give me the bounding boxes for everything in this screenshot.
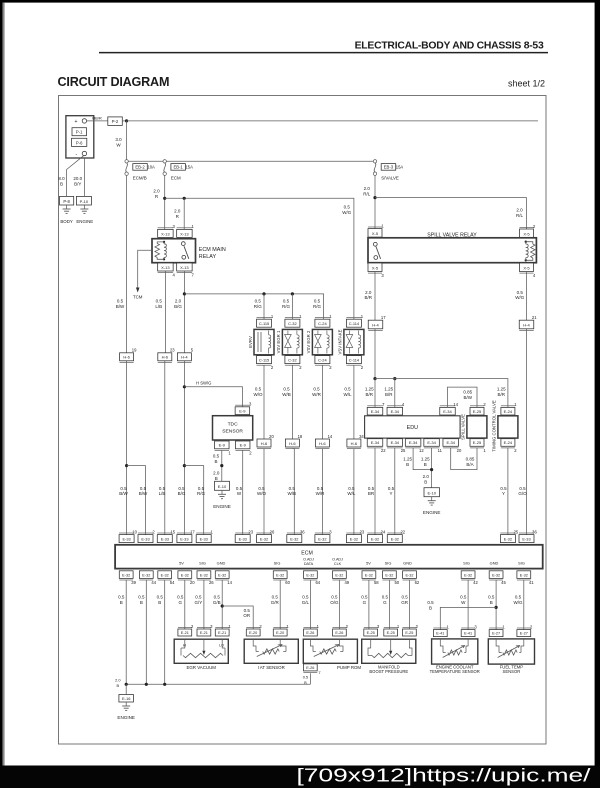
wire EDU pin25 to ECM pin22 [394, 448, 396, 535]
battery box [66, 116, 94, 158]
wire label 0.5 O/G [330, 594, 339, 604]
svg-text:E-34: E-34 [391, 409, 400, 414]
coolant sensor thermistor [440, 639, 468, 658]
svg-text:-: - [75, 152, 77, 158]
svg-text:0.5: 0.5 [118, 594, 125, 599]
connector H-6 pin 34 [347, 434, 364, 449]
svg-text:I AT SENSOR: I AT SENSOR [258, 665, 285, 670]
connector E-26 pin 7 pump rom ground [303, 664, 321, 675]
svg-text:W/L: W/L [347, 491, 355, 496]
connector E-32 ECM top pin 25 [500, 529, 518, 542]
svg-text:E-32: E-32 [276, 573, 284, 577]
svg-text:E-26: E-26 [306, 631, 314, 635]
wire label 0.5 R/G egr1 [282, 298, 291, 308]
EVRV internal symbol [258, 331, 271, 354]
connector E-34 pin 20 bottom [443, 439, 462, 453]
VSV EGR 2 internal symbol [315, 331, 330, 354]
svg-text:X-5: X-5 [372, 231, 379, 236]
svg-text:C-115: C-115 [259, 358, 269, 363]
svg-text:0.5: 0.5 [303, 674, 308, 679]
svg-text:E-33: E-33 [522, 537, 530, 542]
wire label 0.85 B/W [463, 389, 472, 399]
relay U2 SPILL VALVE RELAY box [368, 238, 536, 263]
ground label ENGINE [76, 219, 93, 224]
connector E-34 pin 4 top [387, 402, 405, 415]
connector E-34 pin 7 top [367, 402, 385, 415]
wire branch to ECM pin1 [184, 466, 203, 535]
svg-text:B: B [214, 459, 217, 464]
svg-text:0.5: 0.5 [401, 594, 408, 599]
wire label 0.5 G/B [213, 594, 221, 604]
svg-text:0.5: 0.5 [140, 486, 147, 491]
connector E-33 ECM top pin 36 [519, 529, 537, 542]
svg-text:0.5: 0.5 [460, 594, 467, 599]
wire label 2.0 R drop [174, 209, 181, 219]
svg-text:0.5: 0.5 [331, 594, 338, 599]
svg-text:SIG: SIG [518, 561, 525, 566]
connector C-114 top of VSV INTAKE [346, 314, 363, 327]
connector X-13 pin 7 [177, 263, 195, 278]
svg-text:SPILL VALVE: SPILL VALVE [460, 414, 465, 440]
connector E-32 ECM bottom pin 42 [461, 571, 478, 585]
svg-text:ENGINE: ENGINE [117, 715, 135, 720]
svg-text:OR: OR [243, 613, 251, 618]
svg-text:26: 26 [270, 529, 275, 534]
wire feed down to fuse bus [126, 121, 128, 160]
connector E-32 ECM top pin 22 [387, 529, 405, 542]
svg-text:15: 15 [170, 529, 175, 534]
junction node EDU pin7 feed [373, 377, 376, 380]
wire label 8.0 B [58, 176, 65, 186]
wire VSV power bus [184, 294, 323, 319]
connector E-32 ECM bottom pin 49 [333, 571, 350, 585]
svg-text:G/O: G/O [518, 491, 527, 496]
wire label 0.5 L/B upper [155, 298, 162, 308]
label EDU [407, 425, 418, 431]
svg-text:2.0: 2.0 [364, 186, 371, 191]
junction node ECM pin1 branch [183, 464, 186, 467]
svg-text:GND: GND [490, 561, 499, 566]
svg-text:SIG: SIG [385, 561, 392, 566]
svg-text:54: 54 [170, 580, 175, 585]
svg-text:2.0: 2.0 [516, 208, 523, 213]
svg-text:B: B [406, 462, 409, 467]
svg-text:L/B: L/B [159, 491, 166, 496]
component IAT SENSOR box [244, 639, 298, 663]
svg-text:0.5: 0.5 [214, 594, 221, 599]
svg-text:B/W: B/W [116, 304, 125, 309]
wire label 1.25 B/R pin7 [365, 386, 374, 396]
svg-text:X-5: X-5 [523, 231, 530, 236]
svg-text:0.5: 0.5 [117, 298, 124, 303]
svg-text:C-32: C-32 [288, 321, 296, 326]
svg-text:22: 22 [400, 529, 405, 534]
svg-text:E-9: E-9 [219, 443, 226, 448]
wire label 0.5 W/O lower [257, 486, 266, 496]
svg-text:0.5: 0.5 [213, 454, 220, 459]
svg-text:19: 19 [132, 348, 137, 353]
svg-text:1.25: 1.25 [497, 386, 506, 391]
connector E-10 engine ground right [424, 488, 440, 497]
svg-text:60: 60 [285, 580, 290, 585]
svg-text:PUMP ROM: PUMP ROM [337, 665, 361, 670]
svg-text:R/G: R/G [254, 304, 263, 309]
svg-text:E-20: E-20 [276, 631, 284, 635]
svg-text:B/G: B/G [178, 491, 186, 496]
connector H-4 pin 5 [177, 348, 193, 363]
wire feed EDU pin7 [374, 379, 376, 408]
svg-text:W/R: W/R [312, 392, 321, 397]
svg-text:W/G: W/G [342, 210, 351, 215]
wire label 0.5 W/G relay [515, 290, 524, 300]
wire label 0.5 W/L [343, 386, 351, 396]
wire EDU pins 12 11 join [413, 448, 432, 470]
svg-text:E-24: E-24 [504, 409, 513, 414]
wire EB-2 to ECM pin10 [126, 175, 128, 534]
wire battery to P-2 [87, 120, 108, 122]
svg-text:E-24: E-24 [504, 440, 513, 445]
svg-text:0.5: 0.5 [368, 486, 375, 491]
wire junction to relay pin2 [375, 198, 527, 229]
wire label 0.5 W/O [254, 386, 263, 396]
wire label 2.0 R/L right [516, 208, 524, 218]
svg-text:E-20: E-20 [249, 631, 257, 635]
solenoid valve VSV EGR 2 box [312, 329, 332, 354]
wire ECM pin41 to fuel sensor [523, 580, 525, 630]
svg-text:C-24: C-24 [318, 321, 327, 326]
wire label H SW/G [196, 381, 211, 386]
connector E-32 ECM top pin 36 [287, 529, 305, 542]
svg-text:E-32: E-32 [365, 573, 373, 577]
EGR VACUUM potentiometer [181, 639, 225, 658]
wire ECM pin42 to coolant sensor [467, 580, 469, 630]
label TDC SENSOR [222, 422, 243, 435]
svg-text:E-34: E-34 [427, 440, 436, 445]
svg-text:0.5: 0.5 [120, 486, 127, 491]
wire label 0.5 G/L [302, 594, 310, 604]
wire label 0.5 G [177, 594, 184, 604]
svg-text:E-32: E-32 [161, 573, 169, 577]
svg-text:EB-3: EB-3 [384, 165, 394, 170]
wire P-2 to junction [122, 120, 126, 122]
component PUMP ROM box [303, 639, 357, 663]
svg-text:W/O: W/O [254, 392, 263, 397]
component TIMING CONTROL VALVE box [498, 416, 518, 438]
connector E-33 ECM top pin 15 [157, 529, 175, 542]
PUMP ROM thermistor [310, 639, 343, 656]
svg-text:E-41: E-41 [464, 632, 472, 636]
connector P-2 [108, 117, 123, 126]
connector E-25 pin 1 bottom of spill valve [470, 439, 486, 453]
connector E-24 pin 2 bottom of TCV [501, 439, 517, 453]
svg-text:VSV INTAKE: VSV INTAKE [338, 329, 343, 354]
wire relay pin4 to ECM pin36b [526, 272, 528, 535]
svg-text:sheet 1/2: sheet 1/2 [508, 79, 545, 89]
svg-text:0.5: 0.5 [313, 386, 320, 391]
wire top bus [127, 120, 538, 122]
svg-text:10: 10 [132, 529, 137, 534]
svg-text:X-13: X-13 [161, 265, 170, 270]
wire label 0.5 Y tcv [500, 486, 507, 496]
svg-text:P-8: P-8 [63, 199, 70, 204]
svg-text:36: 36 [532, 529, 537, 534]
connector E-32 ECM bottom pin 14 [215, 571, 232, 585]
svg-text:C-24: C-24 [318, 358, 327, 363]
label VSV EGR 1 rotated [276, 330, 281, 353]
connector C-114 bottom of VSV INTAKE [346, 356, 363, 371]
svg-text:Y: Y [389, 491, 392, 496]
svg-text:17: 17 [190, 529, 195, 534]
connector E-34 pin 14 top [440, 402, 459, 415]
junction node spill relay top [373, 196, 376, 199]
svg-text:20.0: 20.0 [73, 176, 82, 181]
wire label 20.0 B/Y [73, 176, 82, 186]
wire branch to coolant pin1 [440, 607, 496, 629]
relay switch ECM main [181, 242, 188, 259]
svg-text:0.5: 0.5 [289, 486, 296, 491]
svg-text:E-9: E-9 [239, 409, 246, 414]
connector H-6 pin 18 [285, 434, 302, 449]
wire label 0.5 W/B lower [288, 486, 297, 496]
wire H-6 pin20 to ECM pin26 [263, 449, 265, 535]
svg-text:B: B [490, 600, 493, 605]
svg-text:B/R: B/R [385, 392, 393, 397]
connector H-4 pin 21 [519, 315, 537, 330]
svg-text:ECM: ECM [301, 550, 313, 556]
ECM port labels [179, 558, 525, 567]
svg-text:E-32: E-32 [181, 573, 189, 577]
svg-text:0.5: 0.5 [361, 594, 368, 599]
connector X-13 pin 4 [158, 263, 176, 278]
svg-text:0.5: 0.5 [159, 486, 166, 491]
wire ECM pin50 to boost sensor [388, 580, 390, 629]
boost sensor potentiometer [368, 639, 412, 658]
connector E-33 ECM top pin 10 [119, 529, 137, 542]
svg-text:GR: GR [401, 600, 409, 605]
junction node TDC ground [220, 464, 223, 467]
svg-text:GND: GND [403, 561, 412, 566]
svg-text:GND: GND [217, 561, 226, 566]
solenoid valve EVRV box [254, 329, 274, 354]
svg-text:B/Y: B/Y [74, 182, 81, 187]
wire ECM pin58 to boost sensor [368, 580, 370, 629]
svg-text:W/O: W/O [257, 491, 266, 496]
svg-text:26: 26 [209, 580, 214, 585]
svg-text:BOOST PRESSURE: BOOST PRESSURE [369, 669, 408, 674]
relay switch spill valve [373, 242, 380, 259]
svg-text:ELECTRICAL-BODY AND CHASSIS 8: ELECTRICAL-BODY AND CHASSIS 8-53 [355, 40, 544, 51]
wire label 0.5 B/W pin2 [139, 486, 148, 496]
svg-text:E-34: E-34 [443, 409, 452, 414]
junction node gnd1 [125, 683, 128, 686]
svg-text:E-32: E-32 [371, 537, 379, 542]
svg-text:14: 14 [227, 580, 232, 585]
svg-text:0.5: 0.5 [382, 594, 389, 599]
svg-text:LO: LO [219, 644, 224, 648]
wire label 0.5 L/B lower [159, 486, 166, 496]
connector E-26 pin 1 pump rom [304, 624, 320, 636]
svg-text:E-33: E-33 [141, 537, 149, 542]
svg-text:0.5: 0.5 [344, 386, 351, 391]
svg-text:2.0: 2.0 [213, 471, 220, 476]
svg-text:ENGINE: ENGINE [213, 504, 231, 509]
svg-text:E-25: E-25 [387, 631, 395, 635]
svg-text:0.5: 0.5 [198, 486, 205, 491]
wire label 0.5 Y edu [388, 486, 395, 496]
svg-text:E-25: E-25 [367, 631, 375, 635]
wire label 0.5 W/R [312, 386, 321, 396]
connector E-32 ECM bottom pin 50 [383, 571, 400, 585]
svg-text:B/R: B/R [366, 392, 374, 397]
wire EDU pin22 to ECM pin24 [374, 448, 376, 535]
label SPILL VALVE RELAY [427, 233, 477, 239]
svg-text:0.5: 0.5 [317, 486, 324, 491]
connector H-6 pin 19 [120, 348, 137, 363]
svg-text:R/G: R/G [197, 491, 206, 496]
svg-text:10A: 10A [147, 165, 155, 170]
svg-text:23: 23 [170, 348, 175, 353]
svg-text:E-21: E-21 [218, 631, 226, 635]
wire EDU pin11 down [431, 448, 433, 488]
svg-text:44: 44 [151, 580, 156, 585]
wire TDC pin1 to E-10 ground [221, 450, 223, 481]
svg-text:1.25: 1.25 [421, 456, 430, 461]
svg-text:X-13: X-13 [180, 265, 189, 270]
svg-text:C-114: C-114 [349, 358, 360, 363]
svg-text:E-27: E-27 [492, 632, 500, 636]
wire EVRV feed [263, 294, 265, 319]
svg-text:G/B: G/B [213, 600, 221, 605]
connector E-9 pin 1 bottom [215, 441, 232, 455]
svg-text:0.5: 0.5 [156, 298, 163, 303]
svg-text:[709x912]https://upic.me/: [709x912]https://upic.me/ [297, 766, 591, 786]
connector E-24 pin 1 top of TCV [501, 402, 517, 415]
component ENGINE COOLANT TEMPERATURE SENSOR box [432, 639, 478, 664]
svg-text:G: G [363, 600, 367, 605]
svg-text:E-21: E-21 [181, 631, 189, 635]
svg-text:E-32: E-32 [350, 537, 358, 542]
connector E-26 pin 2 pump rom [333, 624, 349, 636]
svg-text:18: 18 [298, 434, 303, 439]
wire label 0.5 B gnd3 [157, 594, 164, 604]
label TIMING CONTROL VALVE rotated [491, 400, 496, 452]
junction node IAT branch [221, 604, 224, 607]
wire ECM pin60 to IAT pin1 [279, 580, 281, 629]
svg-text:HB/R: HB/R [92, 115, 102, 120]
wire label 2.0 B tdc [213, 471, 220, 481]
connector E-32 ECM bottom pin 45 [489, 571, 506, 585]
svg-text:G/Y: G/Y [195, 600, 203, 605]
svg-text:C-115: C-115 [259, 321, 269, 326]
wire label 0.5 B fuel [488, 594, 495, 604]
wire VSV INTAKE to H-6 pin34 [353, 365, 355, 439]
svg-text:0.5: 0.5 [427, 600, 434, 605]
wire label 1.25 B pin11 [421, 456, 430, 466]
svg-text:H-6: H-6 [351, 441, 358, 446]
ground ENGINE battery [80, 205, 88, 213]
svg-text:0.5: 0.5 [255, 386, 262, 391]
wire label 0.5 R/G pin1 [197, 486, 206, 496]
svg-text:23: 23 [360, 529, 365, 534]
wire label 1.25 B/R pin4 [384, 386, 393, 396]
svg-text:P-2: P-2 [112, 119, 119, 124]
svg-text:R/L: R/L [363, 192, 371, 197]
fuel temp thermistor [496, 639, 524, 658]
label ECM MAIN RELAY [199, 247, 226, 260]
label FUEL TEMP SENSOR [500, 664, 523, 674]
svg-text:E-21: E-21 [200, 631, 208, 635]
svg-text:2.0: 2.0 [365, 290, 372, 295]
connector E-32 ECM bottom pin 44 [139, 571, 156, 585]
svg-text:0.5: 0.5 [178, 486, 185, 491]
connector E-32 ECM bottom pin 64 [304, 571, 321, 585]
wire label 0.5 B gnd1 [118, 594, 125, 604]
svg-text:E-32: E-32 [492, 573, 500, 577]
junction node gnd3 [163, 683, 166, 686]
junction node EDU ground join [430, 468, 433, 471]
wire ECM pin39 to ground bus [125, 580, 127, 684]
label I AT SENSOR [258, 665, 285, 670]
svg-text:ENGINE: ENGINE [423, 510, 441, 515]
svg-text:E-33: E-33 [161, 537, 169, 542]
svg-text:TCM: TCM [133, 295, 143, 300]
svg-text:20: 20 [457, 448, 462, 453]
fuse EB-3 15A S/VALVE [373, 160, 403, 181]
svg-text:2.0: 2.0 [115, 677, 121, 682]
svg-text:E-32: E-32 [504, 537, 512, 542]
svg-text:CLK: CLK [334, 562, 342, 566]
svg-text:X-5: X-5 [372, 265, 379, 270]
ground label ENGINE edu [423, 510, 441, 515]
svg-text:SIG: SIG [274, 561, 281, 566]
svg-text:ECM MAIN: ECM MAIN [199, 247, 226, 253]
wire branch to TDC sensor pin3 [184, 387, 242, 407]
wire ECM pin45 to fuel sensor [495, 580, 497, 630]
svg-text:W/L: W/L [343, 392, 351, 397]
wire ECM pin62 to boost sensor [409, 580, 411, 629]
junction node VSV bus [183, 292, 186, 295]
wire label 0.85 B/A [466, 456, 475, 466]
connector E-32 ECM top pin 24 [368, 529, 386, 542]
junction node VSV EGR1 feed [291, 292, 294, 295]
label ENGINE COOLANT TEMPERATURE SENSOR [430, 664, 480, 674]
wire label 0.5 G/O lower [518, 486, 527, 496]
svg-text:5V: 5V [179, 561, 184, 566]
svg-text:W/B: W/B [288, 491, 297, 496]
svg-text:E-34: E-34 [371, 409, 380, 414]
svg-text:20: 20 [269, 434, 274, 439]
svg-text:42: 42 [473, 580, 478, 585]
svg-text:E-32: E-32 [290, 537, 298, 542]
svg-text:E-32: E-32 [464, 573, 472, 577]
svg-text:C-32: C-32 [288, 358, 296, 363]
svg-text:B/W: B/W [119, 491, 128, 496]
svg-text:2.0: 2.0 [423, 474, 430, 479]
wire relay pin7 to ECM pin17 [183, 271, 185, 535]
connector E-27 pin 1 fuel temp [489, 624, 505, 636]
svg-text:23: 23 [248, 529, 253, 534]
wire label 0.5 W/R lower [316, 486, 325, 496]
diagram border box [59, 96, 547, 745]
wire relay bus to VSV INTAKE [165, 198, 354, 319]
junction node EVRV feed [262, 292, 265, 295]
wire ECM pin64 to PUMP ROM [309, 580, 311, 629]
fuse EB-1 15A ECM [163, 160, 193, 181]
svg-text:VSV EGR 2: VSV EGR 2 [306, 330, 311, 353]
wire relay pin3 to EDU bus [374, 272, 376, 379]
connector E-25 pin 2 top of spill valve [470, 402, 486, 415]
svg-text:R/G: R/G [282, 304, 291, 309]
